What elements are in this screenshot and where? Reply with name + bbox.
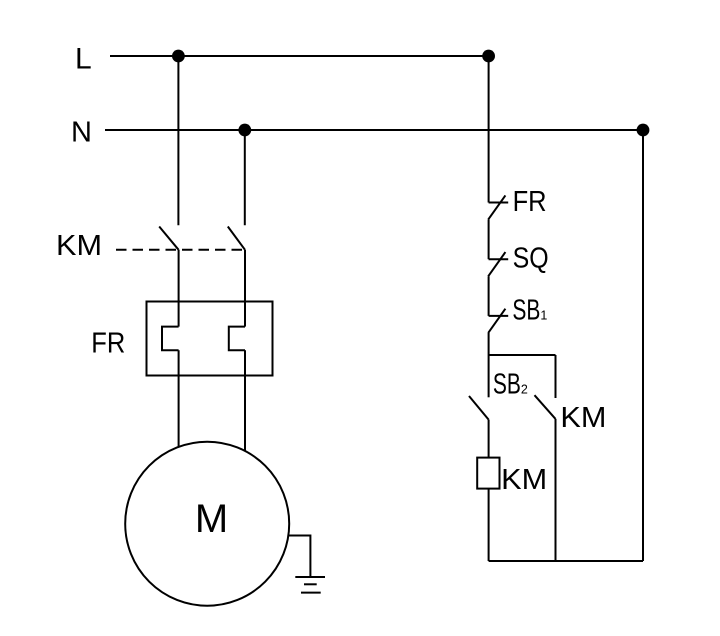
contact SB1 NC blade [488, 309, 505, 333]
node junction L-A [172, 50, 185, 63]
contact SB1 NC seat [489, 315, 509, 317]
svg-text:KM: KM [560, 402, 606, 434]
wire phase B mid [244, 250, 246, 327]
wire N rail [105, 129, 643, 131]
ground bar 1 [295, 576, 325, 578]
wire FR to SQ [488, 220, 490, 260]
wire L rail [110, 55, 489, 57]
ground bar 3 [301, 592, 321, 594]
heater element FR-2 [229, 327, 245, 351]
contact KM pole 2 blade [228, 227, 245, 250]
motor M circle [125, 442, 289, 606]
relay FR box [147, 302, 273, 376]
contactor KM linkage (dashed) [116, 249, 245, 251]
coil KM [477, 458, 499, 489]
contact SQ NC seat [489, 258, 509, 260]
svg-text:SQ: SQ [513, 243, 549, 275]
wire SB2 to coil [488, 420, 490, 458]
svg-text:M: M [195, 497, 228, 541]
wire phase A mid [178, 250, 180, 327]
wire KM branch to bottom [555, 419, 557, 561]
wire control feed [488, 56, 490, 203]
contact FR NC blade [488, 195, 505, 219]
node junction N-D [637, 124, 650, 137]
wire branch to KM contact [489, 354, 556, 356]
wire phase B down [244, 130, 246, 225]
wire phase B to motor [244, 350, 246, 451]
wire SB1 to branch node [488, 333, 490, 355]
wire SQ to SB1 [488, 276, 490, 316]
contact SQ NC blade [488, 252, 505, 276]
svg-text:L: L [75, 43, 92, 76]
wire phase A down [177, 56, 179, 225]
wire motor to ground [288, 536, 310, 578]
svg-text:KM: KM [56, 230, 102, 262]
svg-text:KM: KM [501, 464, 547, 496]
contact KM pole 1 blade [159, 227, 178, 250]
wire KM branch down [555, 355, 557, 398]
wire branch down to SB2 [488, 355, 490, 397]
svg-text:N: N [71, 117, 92, 149]
node junction L-C [482, 50, 495, 63]
svg-text:FR: FR [513, 186, 547, 218]
contact FR NC seat [489, 202, 509, 204]
wire coil to bottom [488, 489, 490, 561]
svg-text:FR: FR [91, 328, 125, 360]
ground bar 2 [304, 583, 317, 585]
node junction N-B [238, 124, 251, 137]
contact KM NO blade [535, 395, 556, 419]
wire neutral return [642, 130, 644, 561]
heater element FR-1 [162, 327, 179, 351]
wire bottom return [489, 560, 643, 562]
wire phase A to motor [178, 350, 180, 447]
contact SB2 NO blade [469, 396, 489, 420]
